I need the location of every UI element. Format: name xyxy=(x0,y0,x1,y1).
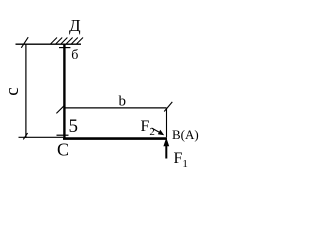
rod bottom crossbar xyxy=(57,134,69,136)
rod top crossbar xyxy=(59,47,70,49)
dimension line b xyxy=(64,107,166,109)
force F1 arrow xyxy=(163,138,169,159)
dimension line c xyxy=(25,44,27,138)
dimension tick bottom of c xyxy=(23,133,27,139)
horizontal beam C-B xyxy=(63,137,167,140)
svg-text:5: 5 xyxy=(69,116,79,137)
wall hatching xyxy=(51,38,84,45)
svg-text:b: b xyxy=(119,94,127,110)
svg-text:B(A): B(A) xyxy=(172,127,199,142)
dimension tick left of b xyxy=(56,105,64,113)
svg-text:Д: Д xyxy=(69,16,81,35)
bottom extension line xyxy=(19,136,64,138)
force F2 leader arrow xyxy=(152,128,165,135)
dimension tick top of c xyxy=(21,37,28,48)
dimension tick right of b xyxy=(164,102,172,112)
svg-text:C: C xyxy=(57,140,69,160)
svg-text:c: c xyxy=(2,87,23,95)
extension line at B xyxy=(166,108,168,137)
wall support base line xyxy=(16,43,82,45)
svg-text:б: б xyxy=(71,48,78,63)
rod 6 (vertical beam) xyxy=(63,45,65,140)
